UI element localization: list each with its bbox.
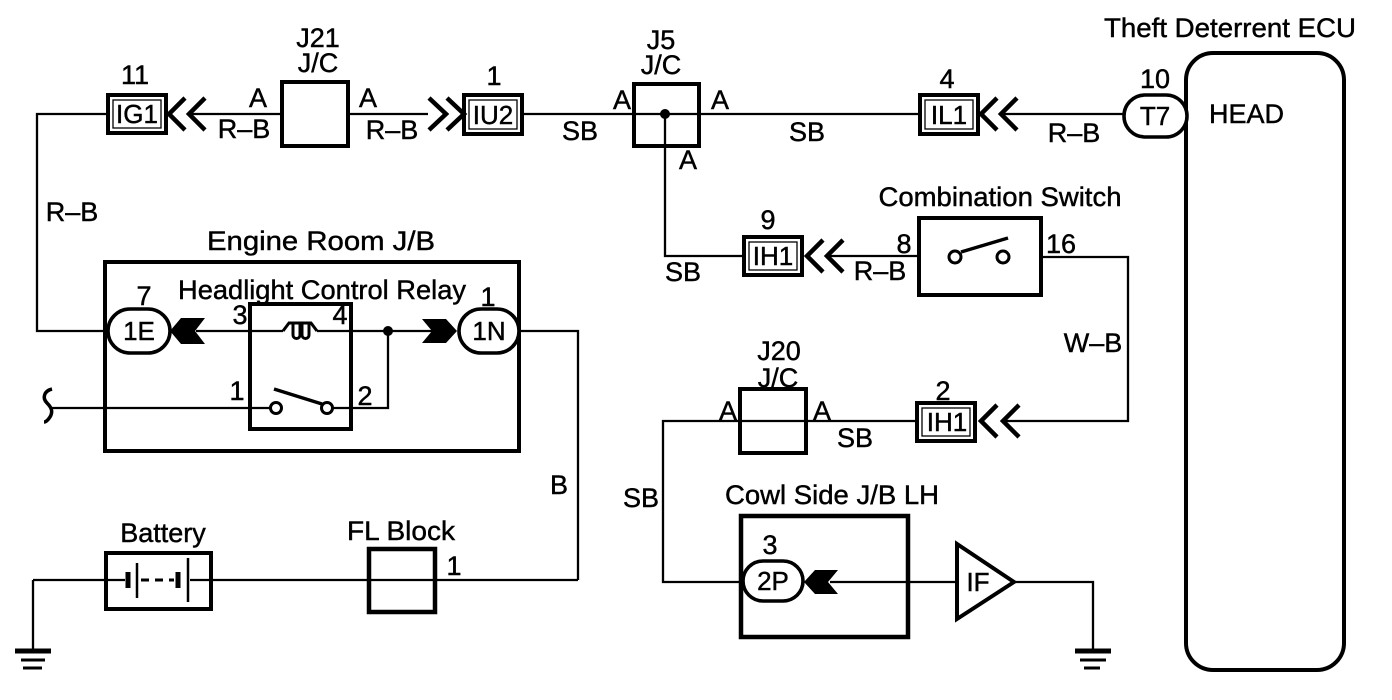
svg-text:SB: SB <box>665 257 701 287</box>
svg-text:A: A <box>249 83 267 113</box>
svg-text:SB: SB <box>623 483 659 513</box>
svg-text:J/C: J/C <box>758 363 799 393</box>
svg-text:9: 9 <box>760 205 775 235</box>
svg-text:1: 1 <box>486 61 501 91</box>
svg-text:11: 11 <box>121 60 149 90</box>
svg-text:B: B <box>550 470 568 500</box>
svg-text:R–B: R–B <box>854 256 907 286</box>
svg-text:A: A <box>719 396 737 426</box>
svg-text:IU2: IU2 <box>473 100 513 130</box>
svg-text:3: 3 <box>762 530 777 560</box>
svg-text:A: A <box>613 85 631 115</box>
svg-text:1: 1 <box>480 282 495 312</box>
svg-text:7: 7 <box>136 281 151 311</box>
svg-text:A: A <box>711 85 729 115</box>
svg-text:Headlight Control Relay: Headlight Control Relay <box>178 275 466 305</box>
svg-text:T7: T7 <box>1140 101 1170 131</box>
svg-text:IH1: IH1 <box>927 407 967 437</box>
svg-text:Battery: Battery <box>120 518 206 548</box>
svg-text:R–B: R–B <box>46 197 99 227</box>
svg-text:IH1: IH1 <box>753 241 793 271</box>
svg-text:R–B: R–B <box>218 114 271 144</box>
svg-text:SB: SB <box>789 117 825 147</box>
svg-text:R–B: R–B <box>1048 118 1101 148</box>
svg-text:R–B: R–B <box>366 115 419 145</box>
svg-text:HEAD: HEAD <box>1209 99 1284 129</box>
svg-text:FL Block: FL Block <box>347 516 456 546</box>
svg-text:8: 8 <box>896 229 911 259</box>
svg-text:J20: J20 <box>757 336 801 366</box>
svg-text:J/C: J/C <box>298 48 339 78</box>
svg-text:4: 4 <box>939 64 954 94</box>
svg-text:IF: IF <box>966 567 989 597</box>
svg-text:4: 4 <box>332 300 347 330</box>
svg-text:Combination Switch: Combination Switch <box>879 182 1122 212</box>
svg-text:SB: SB <box>562 116 598 146</box>
svg-text:SB: SB <box>837 423 873 453</box>
svg-text:A: A <box>813 396 831 426</box>
svg-text:3: 3 <box>232 300 247 330</box>
svg-text:2: 2 <box>935 376 950 406</box>
svg-text:1E: 1E <box>123 316 155 346</box>
svg-text:A: A <box>359 83 377 113</box>
svg-text:16: 16 <box>1046 229 1076 259</box>
svg-text:IL1: IL1 <box>931 100 967 130</box>
svg-text:Theft Deterrent ECU: Theft Deterrent ECU <box>1104 13 1356 43</box>
svg-text:Engine Room J/B: Engine Room J/B <box>207 226 435 256</box>
svg-text:10: 10 <box>1140 64 1170 94</box>
svg-text:IG1: IG1 <box>116 99 158 129</box>
svg-text:W–B: W–B <box>1064 328 1123 358</box>
svg-text:J/C: J/C <box>641 50 682 80</box>
svg-text:1: 1 <box>446 551 461 581</box>
svg-text:A: A <box>679 145 697 175</box>
svg-text:Cowl Side J/B LH: Cowl Side J/B LH <box>725 480 939 510</box>
svg-text:1: 1 <box>229 376 244 406</box>
svg-text:1N: 1N <box>472 316 505 346</box>
svg-text:2: 2 <box>357 381 372 411</box>
svg-text:2P: 2P <box>757 566 789 596</box>
